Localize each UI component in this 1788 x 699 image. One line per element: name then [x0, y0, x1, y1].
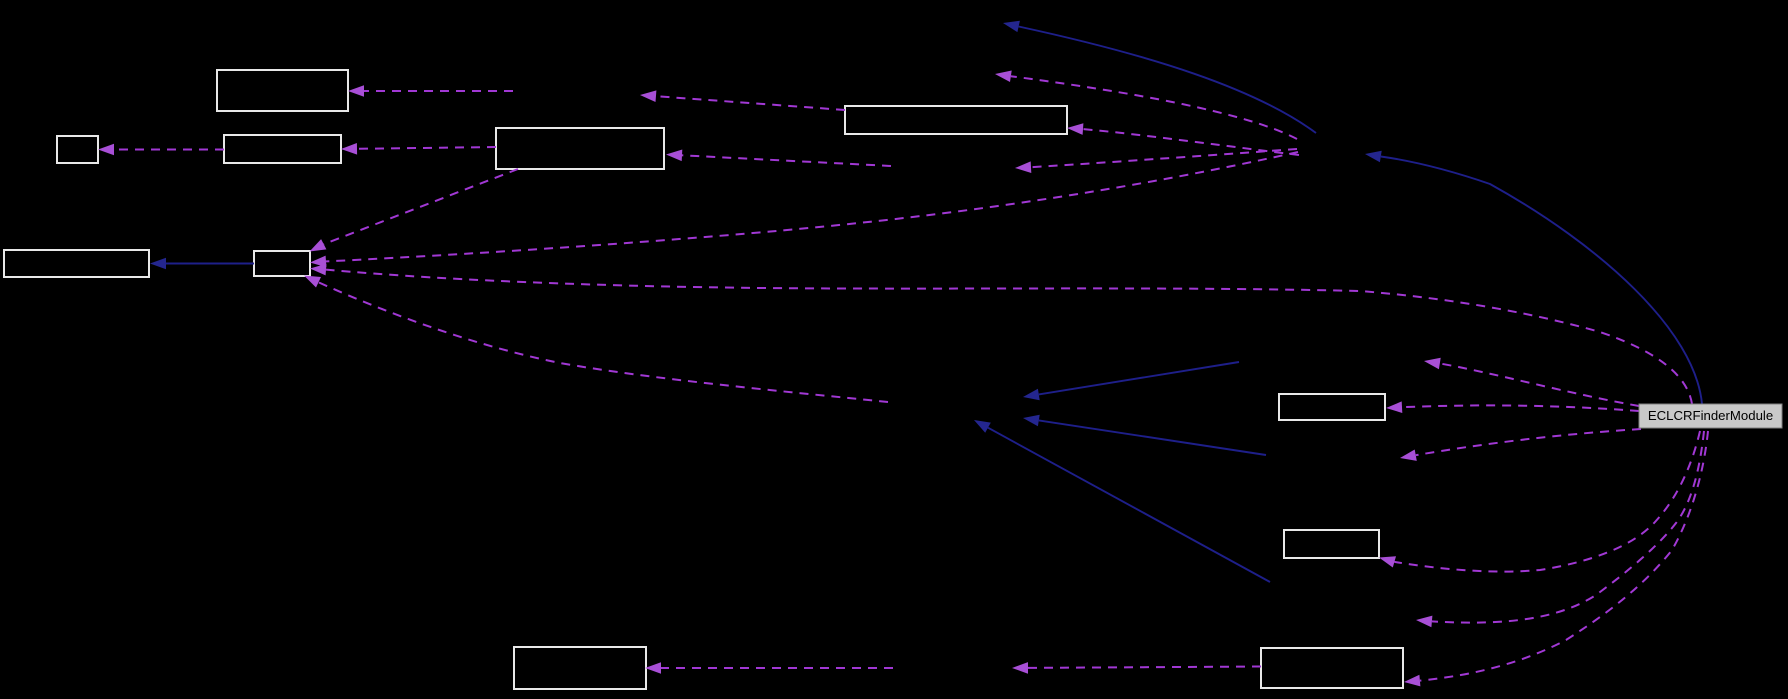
node box A (top-left, unlabeled): [217, 70, 348, 111]
node box H (right): [1279, 394, 1385, 420]
dashed edge from hidden node X3 into box D: [666, 150, 891, 167]
dashed edge from hidden hub X1 to hidden node X3: [1015, 149, 1297, 173]
blue edge from box G to box F: [150, 258, 254, 270]
dashed swoop from ECLCRFinderModule to box K: [1404, 431, 1708, 686]
dashed edge from box C to box B: [98, 144, 224, 156]
node box G (small hub): [254, 251, 310, 276]
dashed edge from hidden hub X1 to box E: [1067, 123, 1299, 155]
dashed edge from ECLCRFinderModule to hidden node X10: [1400, 429, 1641, 461]
dashed edge from box K to hidden node X12: [1012, 662, 1261, 674]
blue edge from hidden node X9 to hidden node X5: [974, 420, 1270, 582]
dashed edge from ECLCRFinderModule to box H: [1386, 401, 1639, 413]
blue edge from hidden node X7 to hidden node X5: [1023, 362, 1239, 400]
dashed edge from hidden hub X1 to box G: [310, 152, 1298, 267]
node box C: [224, 135, 341, 163]
dashed edge from hidden hub X1 to hidden node X2: [995, 71, 1297, 140]
dashed swoop from ECLCRFinderModule to box I: [1379, 431, 1700, 572]
dashed swoop from ECLCRFinderModule to hidden node X11: [1416, 431, 1704, 627]
dashed edge from box D to box C: [341, 143, 496, 155]
dashed long edge from ECLCRFinderModule to box G: [310, 264, 1692, 404]
dashed edge from box E to hidden node (top): [640, 90, 845, 110]
node box J (bottom-left): [514, 647, 646, 689]
node box D: [496, 128, 664, 169]
blue curved edge from ECLCRFinderModule to hidden hub X1: [1365, 151, 1702, 404]
dashed edge from hidden node X5 to box G: [304, 276, 888, 403]
dashed edge from hidden node into box A: [348, 85, 513, 97]
dashed edge from ECLCRFinderModule to hidden node X7: [1424, 358, 1639, 406]
node box F (left): [4, 250, 149, 277]
node box E (wide, top-middle): [845, 106, 1067, 134]
node box I (right): [1284, 530, 1379, 558]
dashed edge from hidden node X12 to box J: [645, 662, 893, 674]
node box K (bottom-right): [1261, 648, 1403, 688]
central node ECLCRFinderModule (grey filled): [1639, 404, 1782, 428]
blue edge from hidden node X8 to hidden node X5: [1023, 415, 1266, 455]
dashed edge from box D to box G: [310, 169, 519, 252]
svg-text:ECLCRFinderModule: ECLCRFinderModule: [1648, 408, 1773, 423]
blue curved edge from hidden hub X1 to hidden node X4: [1003, 21, 1316, 133]
node box B (small, left): [57, 136, 98, 163]
